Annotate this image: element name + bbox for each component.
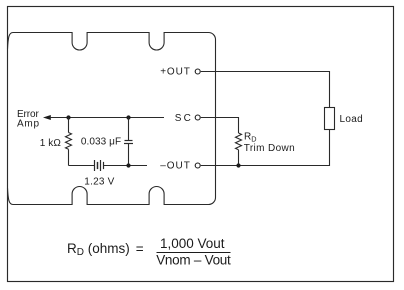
resistor R 1 kΩ [66, 118, 72, 166]
svg-text:1.23 V: 1.23 V [84, 177, 114, 188]
capacitor C 0.033 µF [124, 118, 133, 166]
svg-text:SC: SC [175, 113, 191, 124]
junction dot RD bottom [236, 163, 240, 167]
wire: -OUT to load bottom corner [201, 130, 330, 166]
svg-text:1 kΩ: 1 kΩ [40, 138, 62, 149]
load resistor box [325, 108, 335, 130]
terminal circle SC [195, 115, 200, 120]
regulator package outline U1 [8, 33, 216, 205]
terminal circle +OUT [195, 69, 200, 74]
resistor RD trim down [236, 133, 242, 166]
label Error Amp [17, 109, 39, 130]
wire: 1k bottom to battery [69, 165, 95, 167]
svg-text:Amp: Amp [17, 119, 39, 130]
formula RD (ohms) = 1,000 Vout / (Vnom - Vout) [67, 236, 231, 267]
junction dot at 1k resistor top [66, 115, 70, 119]
wire: +OUT to load top corner [201, 72, 330, 108]
svg-text:RD (ohms): RD (ohms) [67, 241, 130, 258]
svg-text:Trim Down: Trim Down [244, 143, 295, 154]
terminal circle -OUT [195, 163, 200, 168]
wire: SC to RD top [201, 118, 239, 134]
svg-text:+OUT: +OUT [160, 67, 190, 78]
svg-text:0.033 μF: 0.033 μF [81, 137, 121, 148]
svg-text:Load: Load [340, 114, 363, 125]
svg-text:=: = [136, 241, 144, 256]
wire: SC node horizontal (error amp line) [50, 117, 165, 119]
wire: battery to -OUT label [104, 165, 148, 167]
svg-text:1,000 Vout: 1,000 Vout [160, 236, 225, 251]
arrow to error amp [43, 115, 51, 120]
svg-text:–OUT: –OUT [160, 161, 190, 172]
svg-text:Vnom – Vout: Vnom – Vout [156, 252, 231, 267]
battery 1.23 V reference [95, 160, 104, 171]
junction dot at capacitor bottom [126, 163, 130, 167]
junction dot at capacitor top [126, 115, 130, 119]
